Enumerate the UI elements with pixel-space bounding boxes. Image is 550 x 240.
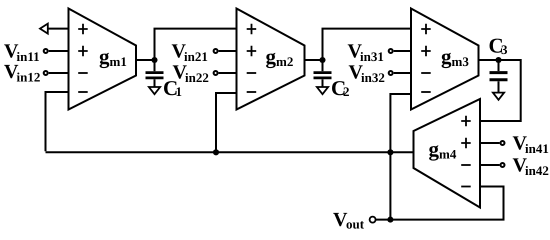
svg-text:in11: in11 [17,49,40,64]
wire feedback bus [46,151,414,153]
capacitor C1 [146,60,164,87]
label Vin32 [349,62,385,86]
wire gm1 output to node A [136,59,155,61]
capacitor C3 [490,60,508,93]
svg-text:g: g [429,137,440,161]
wire gm2 output to node B [305,59,323,61]
ground (C2) [317,87,328,94]
svg-text:in31: in31 [360,49,384,64]
label Vin41 [513,133,549,157]
label Vin11 [4,41,40,65]
node B junction [319,57,325,63]
svg-text:in32: in32 [361,70,385,85]
op-amp U1 gm1 [69,9,137,110]
svg-text:in22: in22 [185,70,209,85]
label Vout [333,209,365,232]
label Vin31 [348,41,384,65]
terminal Vin12 [44,71,69,75]
label Vin12 [4,61,40,85]
label Vin22 [173,62,209,86]
ground (C1) [149,87,160,94]
wire gm3 feedback input down to Vout rail [390,94,411,220]
ground (C3) [493,93,504,100]
svg-text:1: 1 [176,84,183,99]
svg-text:2: 2 [343,84,350,99]
wire gm1 feedback input [46,92,69,151]
label C3 [489,34,509,58]
svg-text:in12: in12 [17,70,41,85]
svg-text:g: g [99,45,110,69]
svg-text:in42: in42 [525,163,549,178]
svg-text:m4: m4 [439,147,457,162]
label Vin21 [172,41,208,65]
wire gm2 feedback input [216,93,237,152]
terminal Vin11 [44,49,69,53]
terminal Vin32 [389,71,411,75]
terminal Vin22 [214,71,237,75]
svg-text:out: out [346,217,365,232]
capacitor C2 [314,60,332,87]
input arrow (gm1 top +) [40,24,69,34]
junction feedback/gm3 branch [387,149,393,155]
wire node C to gm4 top input [480,60,521,121]
svg-text:m1: m1 [110,54,127,69]
op-amp U2 gm2 [237,9,305,110]
wire gm4 bottom input to Vout rail [376,187,504,220]
node C junction [495,57,501,63]
label C1 [163,76,182,100]
junction Vout rail [387,217,393,223]
terminal Vin21 [214,49,237,53]
wire gm3 output to node C [479,59,499,61]
svg-text:g: g [266,45,277,69]
svg-text:g: g [441,45,452,69]
wire node B to gm3 top input [323,29,412,60]
op-amp U4 gm4 (mirrored) [414,99,481,208]
svg-text:m3: m3 [452,54,470,69]
label C2 [331,76,350,100]
junction gm2 feedback on bus [213,149,219,155]
wire node A to gm2 top input [155,29,237,60]
svg-text:in21: in21 [184,49,208,64]
node A junction [151,57,157,63]
label Vin42 [513,155,549,179]
terminal Vout [370,217,376,223]
op-amp U3 gm3 [411,9,479,110]
terminal Vin41 [480,141,505,145]
svg-text:3: 3 [501,42,508,57]
terminal Vin31 [389,49,411,53]
svg-text:in41: in41 [525,141,549,156]
terminal Vin42 [480,163,505,167]
svg-text:m2: m2 [276,54,293,69]
